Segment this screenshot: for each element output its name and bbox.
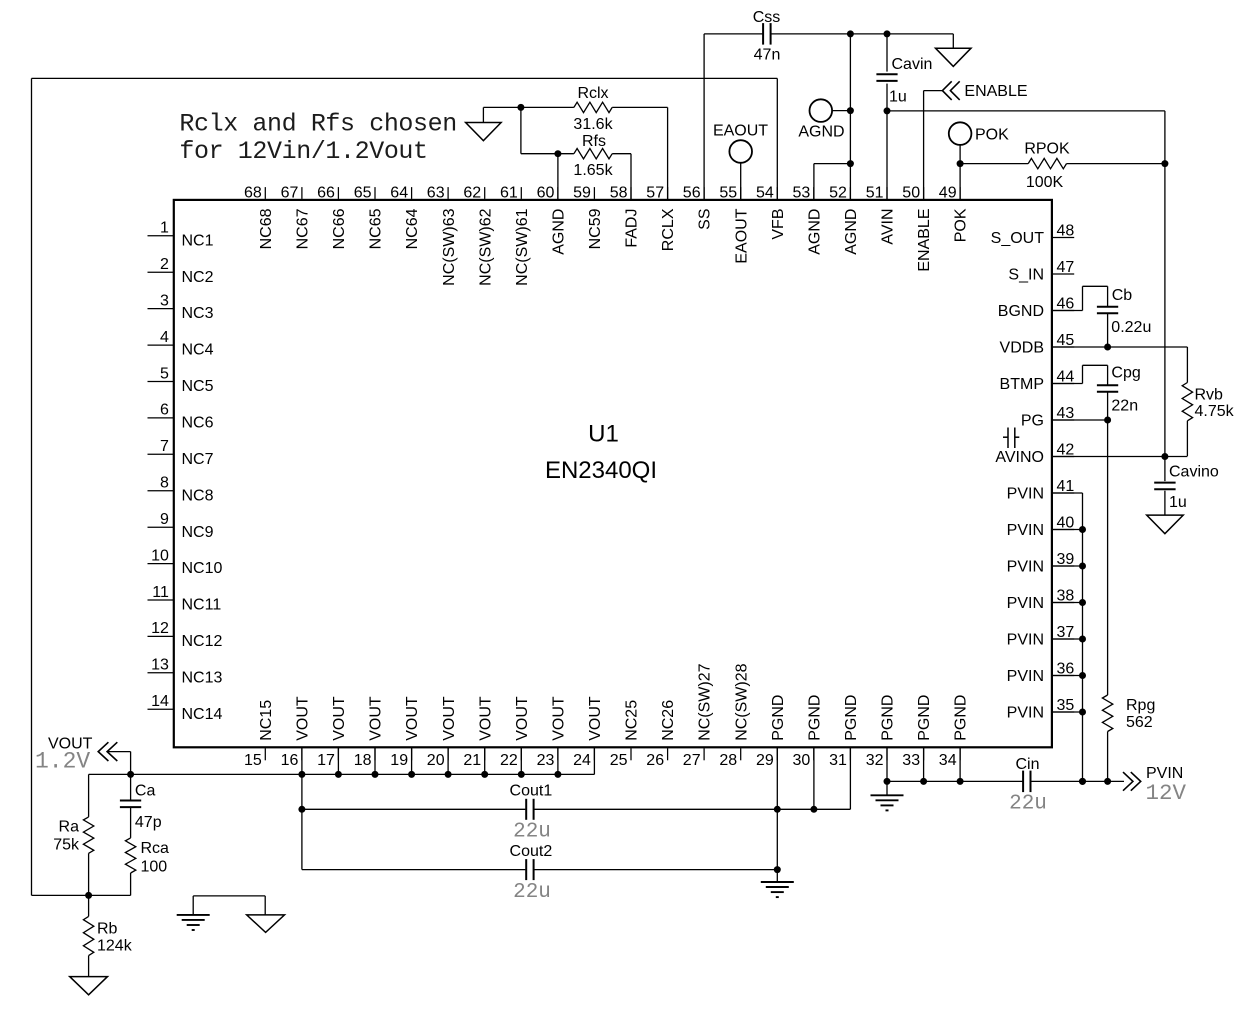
svg-text:Rca: Rca [141,840,170,857]
PG pulse symbol inside chip [1003,428,1019,449]
node junction PVIN rail 2 [1104,778,1111,785]
svg-text:21: 21 [463,752,481,769]
capacitor Ca [120,801,141,808]
value 22u Cin [1009,793,1047,816]
svg-text:19: 19 [390,752,408,769]
pin 24 VOUT (bottom) [573,696,604,769]
value 31.6k [573,116,613,133]
value 1.65k [573,162,613,179]
label Cpg [1111,365,1140,382]
wire VFB node horizontal [32,894,131,896]
svg-text:Rclx and Rfs chosen: Rclx and Rfs chosen [179,110,456,139]
svg-text:AVINO: AVINO [995,449,1044,466]
svg-text:1.2V: 1.2V [35,748,90,774]
pin 42 AVINO (right) [995,442,1074,466]
svg-text:NC5: NC5 [182,378,214,395]
svg-text:57: 57 [646,184,664,201]
pin 11 NC11 (left) [148,584,222,614]
pin 49 POK (top) [939,184,970,242]
svg-text:NC11: NC11 [182,597,222,614]
svg-text:NC(SW)62: NC(SW)62 [477,208,494,285]
label RPOK [1024,140,1070,157]
note text line 1 [179,110,456,139]
wire RPOK right [1067,163,1165,165]
node junction AGND riser [847,30,854,37]
svg-text:61: 61 [500,184,518,201]
ground earth symbol PGND rail [871,781,904,810]
svg-text:15: 15 [244,752,262,769]
svg-text:FADJ: FADJ [624,209,641,248]
svg-text:S_OUT: S_OUT [991,230,1045,247]
label VOUT port [48,736,93,753]
resistor Ra [83,817,93,853]
svg-text:Rpg: Rpg [1126,697,1155,714]
wire pin 43 PG [1052,419,1108,421]
svg-text:NC6: NC6 [182,415,214,432]
svg-text:Rclx: Rclx [577,85,608,102]
svg-text:NC2: NC2 [182,269,214,286]
pin 40 PVIN (right) [1007,515,1075,539]
wire ground tie [193,896,265,915]
wire Rfs to pin 58 [612,154,631,200]
pin 45 VDDB (right) [1000,332,1075,356]
node junction pin53/riser [847,160,854,167]
svg-text:56: 56 [683,184,701,201]
wire EAOUT stem to pin 55 [740,163,742,200]
node junction PVIN rail 1 [1079,778,1086,785]
svg-text:50: 50 [902,184,920,201]
svg-text:53: 53 [793,184,811,201]
wire Rclx to pin 57 [667,107,669,199]
capacitor Cavino [1154,483,1175,490]
svg-text:25: 25 [610,752,628,769]
pin 23 VOUT (bottom) [537,696,568,769]
node junction PVIN bus bottom [1079,778,1086,785]
value EN2340QI [545,457,657,484]
pin 48 S_OUT (right) [991,223,1075,247]
label Cout2 [510,843,553,860]
label PVIN port [1146,765,1183,782]
value 47p [135,814,162,831]
wire pin 16 down to Cout2 [301,774,303,869]
svg-text:Cout1: Cout1 [510,782,553,799]
svg-text:Cb: Cb [1112,287,1133,304]
svg-text:6: 6 [160,402,169,419]
svg-text:NC13: NC13 [182,669,223,686]
wire AGND port to riser [832,110,850,112]
svg-text:Cpg: Cpg [1111,365,1140,382]
svg-text:66: 66 [317,184,335,201]
svg-text:PGND: PGND [916,695,933,741]
label AGND [798,124,844,141]
label ENABLE [964,83,1027,100]
svg-text:NC26: NC26 [660,700,677,741]
pin 66 NC66 (top) [317,184,348,249]
svg-text:59: 59 [573,184,591,201]
svg-text:NC(SW)27: NC(SW)27 [697,663,714,740]
pin 39 PVIN (right) [1007,551,1075,575]
node junction Cpg/PG [1104,417,1111,424]
svg-text:9: 9 [160,511,169,528]
refdes U1 [588,421,619,448]
label Rfs [582,133,606,150]
wire VOUT to Ra [88,774,90,817]
node junction pin29/Cout1 [774,806,781,813]
svg-text:PVIN: PVIN [1007,668,1044,685]
svg-text:22u: 22u [513,881,551,904]
wire Rca to FB node [130,873,132,895]
wire VOUT port stem [107,752,131,775]
svg-text:13: 13 [151,657,169,674]
svg-text:3: 3 [160,292,169,309]
svg-text:49: 49 [939,184,957,201]
svg-text:11: 11 [152,584,169,601]
pin 33 PGND (bottom) [902,695,933,769]
svg-text:PVIN: PVIN [1007,486,1044,503]
svg-text:20: 20 [427,752,445,769]
pin 44 BTMP (right) [1000,369,1075,393]
label Cin [1015,756,1039,773]
svg-text:2: 2 [160,256,169,273]
svg-text:NC67: NC67 [295,208,312,249]
resistor Rvb [1182,383,1192,421]
wire Cavino to ground [1164,491,1166,515]
label Cavin [892,56,933,73]
svg-text:32: 32 [866,752,884,769]
pin 3 NC3 (left) [148,292,214,322]
svg-text:PGND: PGND [843,695,860,741]
pin 38 PVIN (right) [1007,588,1075,612]
svg-text:PGND: PGND [953,695,970,741]
resistor Rpg [1102,695,1112,732]
svg-text:60: 60 [537,184,555,201]
svg-text:75k: 75k [53,837,80,854]
capacitor Cb [1097,307,1118,314]
svg-text:31: 31 [829,752,847,769]
svg-text:VOUT: VOUT [295,696,312,741]
wire Cpg to PG [1107,392,1109,420]
wire junction down to Rfs [521,107,574,153]
pin 64 NC64 (top) [390,184,421,249]
pin 41 PVIN (right) [1007,478,1075,502]
svg-text:1u: 1u [889,88,907,105]
wire Cout1 line left [302,808,526,810]
svg-text:64: 64 [390,184,408,201]
wire pin 34 PGND down [959,747,961,781]
pin 50 ENABLE (top) [902,184,933,271]
pin 61 NC(SW)61 (top) [500,184,531,286]
IC U1 EN2340QI body [174,200,1052,747]
svg-text:VOUT: VOUT [441,696,458,741]
value 124k [97,938,133,955]
svg-text:for 12Vin/1.2Vout: for 12Vin/1.2Vout [179,137,427,166]
capacitor Cpg [1097,385,1118,392]
svg-text:54: 54 [756,184,774,201]
resistor Rca [125,838,135,873]
resistor RPOK [1028,158,1066,168]
value 12V [1146,780,1187,806]
wire Cb to VDDB [1107,313,1109,347]
svg-text:10: 10 [151,547,169,564]
node junction pin32 rail [884,778,891,785]
pin 8 NC8 (left) [148,475,214,505]
wire pin 51 AVIN up [886,34,888,200]
svg-text:47: 47 [1057,259,1075,276]
label Cb [1112,287,1133,304]
label Ra [59,818,80,835]
svg-text:NC25: NC25 [624,700,641,741]
node junction pin29/Cout2 [774,866,781,873]
node junction pin16/Cout1 [298,806,305,813]
svg-text:VOUT: VOUT [587,696,604,741]
VOUT port chevrons [98,742,117,761]
wire FB to Rb [88,895,90,916]
pin 4 NC4 (left) [148,329,214,359]
pin 28 NC(SW)28 (bottom) [719,663,750,769]
svg-text:51: 51 [866,184,884,201]
wire PGND rail to Cin [887,780,1023,782]
value 0.22u [1111,319,1151,336]
node junction AGND riser mid [847,107,854,114]
svg-text:62: 62 [463,184,481,201]
pin 13 NC13 (left) [148,657,223,687]
pin 46 BGND (right) [998,296,1075,320]
wire Cout1 line right [533,747,850,809]
ENABLE port chevrons [942,81,959,100]
label Rb [97,921,118,938]
svg-text:100K: 100K [1026,174,1064,191]
svg-text:Cin: Cin [1015,756,1039,773]
ground symbol tie arrow [247,915,285,933]
wire PG net down to Rpg [1107,420,1109,695]
svg-text:34: 34 [939,752,957,769]
svg-text:PVIN: PVIN [1007,595,1044,612]
svg-text:100: 100 [141,858,168,875]
svg-text:ENABLE: ENABLE [916,209,933,272]
svg-text:22u: 22u [1009,793,1047,816]
node junction AGND pin60 [554,150,561,157]
PVIN port chevrons [1123,772,1141,791]
svg-text:PVIN: PVIN [1007,705,1044,722]
label Rpg [1126,697,1155,714]
svg-text:NC(SW)63: NC(SW)63 [441,208,458,285]
svg-text:VFB: VFB [770,209,787,240]
svg-text:VOUT: VOUT [477,696,494,741]
wire Rvb to AVINO [1186,421,1188,456]
svg-text:PGND: PGND [770,695,787,741]
pin 62 NC(SW)62 (top) [463,184,494,286]
svg-text:562: 562 [1126,714,1153,731]
svg-text:22n: 22n [1111,398,1138,415]
pin 54 VFB (top) [756,184,787,239]
label Rvb [1195,386,1224,403]
svg-text:VOUT: VOUT [331,696,348,741]
svg-text:NC(SW)61: NC(SW)61 [514,208,531,285]
svg-text:14: 14 [151,693,169,710]
node junction Rclx/Rfs [517,104,524,111]
resistor Rb [83,916,93,955]
pin 67 NC67 (top) [281,184,312,249]
pin 10 NC10 (left) [148,547,223,577]
svg-text:ENABLE: ENABLE [964,83,1027,100]
wire pin 50 ENABLE [924,91,943,200]
svg-text:POK: POK [975,127,1009,144]
svg-text:16: 16 [281,752,299,769]
svg-text:NC66: NC66 [331,208,348,249]
note text line 2 [179,137,427,166]
svg-text:NC14: NC14 [182,706,223,723]
wire pin 42 AVINO [1052,456,1188,458]
pin 7 NC7 (left) [148,438,214,468]
svg-text:Rvb: Rvb [1195,386,1224,403]
wire AVIN to right bus [887,110,1165,112]
EAOUT port symbol [729,140,752,163]
svg-text:NC12: NC12 [182,633,223,650]
pin 16 VOUT (bottom) [281,696,312,769]
node junction AVINO/Cavino [1161,453,1168,460]
pin 37 PVIN (right) [1007,624,1075,648]
svg-text:POK: POK [953,208,970,242]
svg-text:48: 48 [1057,223,1075,240]
wire Cout2 line left [302,869,526,871]
pin 43 PG (right) [1021,405,1075,429]
svg-text:AGND: AGND [551,209,568,255]
svg-text:30: 30 [793,752,811,769]
svg-text:7: 7 [160,438,169,455]
wire Cavino stem [1164,457,1166,482]
pin 65 NC65 (top) [354,184,385,249]
capacitor Cout1 [526,799,533,820]
pin 25 NC25 (bottom) [610,700,641,769]
pin 27 NC(SW)27 (bottom) [683,663,714,769]
svg-text:NC68: NC68 [258,208,275,249]
pin 20 VOUT (bottom) [427,696,458,769]
node junction Cb/VDDB [1104,344,1111,351]
svg-text:67: 67 [281,184,299,201]
svg-text:4.75k: 4.75k [1195,403,1235,420]
wire pin 46 BGND to Cb [1052,286,1108,310]
ground symbol at Rclx net [466,107,502,140]
wire Rpg to PVIN rail [1107,732,1109,782]
pin 12 NC12 (left) [148,620,223,650]
svg-text:63: 63 [427,184,445,201]
svg-text:S_IN: S_IN [1008,267,1044,284]
wire RCLX net horizontal [483,106,667,108]
capacitor Cin [1023,771,1030,793]
pin 52 AGND (top) [829,184,860,254]
svg-text:17: 17 [317,752,335,769]
svg-text:NC7: NC7 [182,451,214,468]
node junction pin33 rail [920,778,927,785]
svg-text:NC(SW)28: NC(SW)28 [733,663,750,740]
svg-text:PGND: PGND [880,695,897,741]
svg-text:VDDB: VDDB [1000,340,1044,357]
svg-text:VOUT: VOUT [551,696,568,741]
svg-text:18: 18 [354,752,372,769]
svg-text:AGND: AGND [798,124,844,141]
pin 55 EAOUT (top) [719,184,750,263]
wire Rb to ground [88,956,90,977]
svg-text:NC3: NC3 [182,305,214,322]
svg-text:SS: SS [697,209,714,230]
svg-text:BGND: BGND [998,303,1044,320]
svg-text:65: 65 [354,184,372,201]
pin 2 NC2 (left) [148,256,214,286]
svg-text:BTMP: BTMP [1000,376,1044,393]
wire pin 30 down [813,747,815,809]
pin 51 AVIN (top) [866,184,897,244]
label Css [753,9,781,26]
svg-text:124k: 124k [97,938,133,955]
svg-text:EN2340QI: EN2340QI [545,457,657,484]
value 22u Cout1 [513,821,551,844]
label Cavino [1169,463,1219,480]
svg-text:NC8: NC8 [182,487,214,504]
wire pin 45 VDDB to Rvb [1052,347,1188,383]
node junction pin34 rail [957,778,964,785]
svg-text:RCLX: RCLX [660,208,677,251]
svg-text:12V: 12V [1146,780,1187,806]
wire VFB net feedback loop [32,78,778,895]
pin 14 NC14 (left) [148,693,223,723]
svg-text:23: 23 [537,752,555,769]
svg-text:EAOUT: EAOUT [713,122,768,139]
ground earth symbol tie [177,915,210,930]
svg-text:NC59: NC59 [587,208,604,249]
label EAOUT [713,122,768,139]
wire Cin to PVIN port [1031,780,1125,782]
svg-text:Cout2: Cout2 [510,843,553,860]
svg-text:26: 26 [646,752,664,769]
svg-text:NC9: NC9 [182,524,214,541]
label Cout1 [510,782,553,799]
svg-text:29: 29 [756,752,774,769]
svg-text:Cavino: Cavino [1169,463,1219,480]
wire PVIN bus pins 41-35 [1052,493,1086,781]
pin 31 PGND (bottom) [829,695,860,769]
value 100K [1026,174,1064,191]
label Rca [141,840,170,857]
svg-text:52: 52 [829,184,847,201]
node junction AVIN wire [884,107,891,114]
wire pin 53 AGND [814,164,851,200]
svg-text:Cavin: Cavin [892,56,933,73]
pin 6 NC6 (left) [148,402,214,432]
svg-text:AGND: AGND [806,209,823,255]
POK port symbol [949,122,972,145]
pin 59 NC59 (top) [573,184,604,249]
svg-text:NC4: NC4 [182,342,214,359]
wire Ca to Rca [130,807,132,838]
node junction pin30/Cout1 [810,806,817,813]
svg-text:RPOK: RPOK [1024,140,1070,157]
pin 53 AGND (top) [793,184,824,254]
pin 68 NC68 (top) [244,184,275,249]
resistor Rclx [574,102,612,112]
svg-text:NC64: NC64 [404,208,421,249]
node junction Cavin top [884,30,891,37]
value 22n [1111,398,1138,415]
value 100 Rca [141,858,168,875]
svg-text:NC15: NC15 [258,700,275,741]
pin 26 NC26 (bottom) [646,700,677,769]
value 1u Cavino [1169,494,1187,511]
svg-text:EAOUT: EAOUT [733,208,750,263]
svg-text:VOUT: VOUT [514,696,531,741]
svg-text:Rb: Rb [97,921,118,938]
svg-text:27: 27 [683,752,701,769]
svg-text:NC10: NC10 [182,560,223,577]
